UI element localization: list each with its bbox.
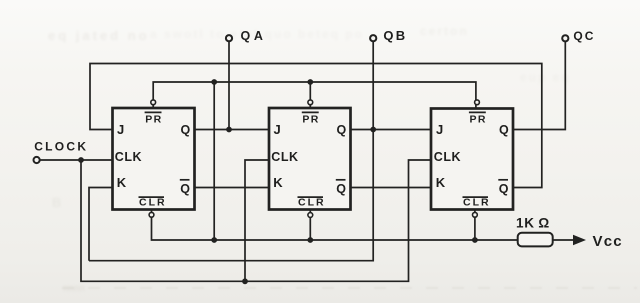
wire: clock bus <box>81 160 431 281</box>
svg-text:K: K <box>436 175 446 190</box>
Vcc arrowhead <box>573 235 586 246</box>
svg-text:QC: QC <box>573 29 595 43</box>
terminal QB <box>370 35 376 41</box>
svg-text:PR: PR <box>302 113 319 125</box>
svg-text:Q: Q <box>181 123 191 137</box>
terminal QC <box>562 35 568 41</box>
svg-text:QA: QA <box>241 29 267 43</box>
wire: FF2 clock drop <box>245 160 269 281</box>
wire: PR-to-CLR tie <box>213 82 215 240</box>
wire: QC tap <box>513 42 565 130</box>
junction: CLR bus / tie <box>211 237 217 243</box>
wire: Q2 to J3 <box>351 129 432 131</box>
wire: PR bus <box>153 82 476 108</box>
U3 CLR bubble <box>473 212 478 217</box>
flip-flop U1 box <box>113 108 195 210</box>
wire: feedback Q̄3 to J1 (top horizontal) <box>90 64 542 188</box>
svg-text:K: K <box>273 175 283 190</box>
svg-text:J: J <box>436 122 443 137</box>
svg-text:CLOCK: CLOCK <box>34 139 88 153</box>
wire: FF2 PR stub <box>309 82 311 108</box>
wire: CLOCK input <box>40 159 113 161</box>
svg-text:CLK: CLK <box>271 150 299 164</box>
svg-text:Q: Q <box>180 182 190 196</box>
junction: PR bus / tie <box>211 79 217 85</box>
flip-flop U2 box <box>269 108 351 210</box>
junction: QA on Q1 <box>226 127 232 133</box>
terminal CLOCK <box>34 157 40 163</box>
junction: CLR bus / U3 <box>472 237 478 243</box>
svg-text:K: K <box>117 175 127 190</box>
svg-text:Q: Q <box>336 182 346 196</box>
junction: PR bus / U2 <box>307 79 313 85</box>
junction: clock node <box>78 157 84 163</box>
wire: QB tap down to K1 bus <box>89 41 373 261</box>
wire: FF3 CLR stub <box>474 210 476 241</box>
U1 CLR bubble <box>149 212 154 217</box>
U1 PR bubble <box>151 100 156 105</box>
resistor R1 1KΩ <box>518 233 553 247</box>
wire: CLR bus to resistor <box>152 210 518 241</box>
U2 PR bubble <box>308 100 313 105</box>
U3 pin labels <box>434 112 509 208</box>
wire: resistor to Vcc arrow shaft <box>553 239 574 241</box>
svg-text:QB: QB <box>383 28 407 43</box>
wire: FF2 CLR stub <box>309 210 311 241</box>
U3 PR bubble <box>475 100 480 105</box>
svg-text:CLR: CLR <box>463 197 491 209</box>
svg-text:CLR: CLR <box>298 197 326 209</box>
svg-text:CLK: CLK <box>434 150 462 164</box>
wire: Q1 to J2 <box>195 129 270 131</box>
svg-text:J: J <box>117 122 124 137</box>
wire: K1 stub <box>89 188 113 261</box>
svg-text:PR: PR <box>470 113 487 125</box>
flip-flop U3 box <box>431 109 513 210</box>
wire: Q̄1 to K2 <box>195 187 270 189</box>
U1 pin labels <box>115 112 191 208</box>
svg-text:Q: Q <box>337 123 347 137</box>
svg-text:Q: Q <box>499 123 509 137</box>
junction: CLR bus / U2 <box>307 237 313 243</box>
svg-text:Q: Q <box>499 182 509 196</box>
svg-text:J: J <box>274 122 281 137</box>
junction: QB on Q2 <box>370 127 376 133</box>
U2 pin labels <box>271 112 346 208</box>
U2 CLR bubble <box>308 213 313 218</box>
terminal QA <box>226 35 232 41</box>
svg-text:PR: PR <box>145 113 162 125</box>
wire: QA tap <box>228 41 230 130</box>
svg-text:CLK: CLK <box>115 150 143 164</box>
svg-text:1K Ω: 1K Ω <box>516 216 550 231</box>
wire: Q̄2 to K3 <box>351 187 432 189</box>
junction: clock bus / U2 drop <box>242 278 248 284</box>
svg-text:CLR: CLR <box>139 197 167 209</box>
svg-text:Vcc: Vcc <box>593 233 623 250</box>
